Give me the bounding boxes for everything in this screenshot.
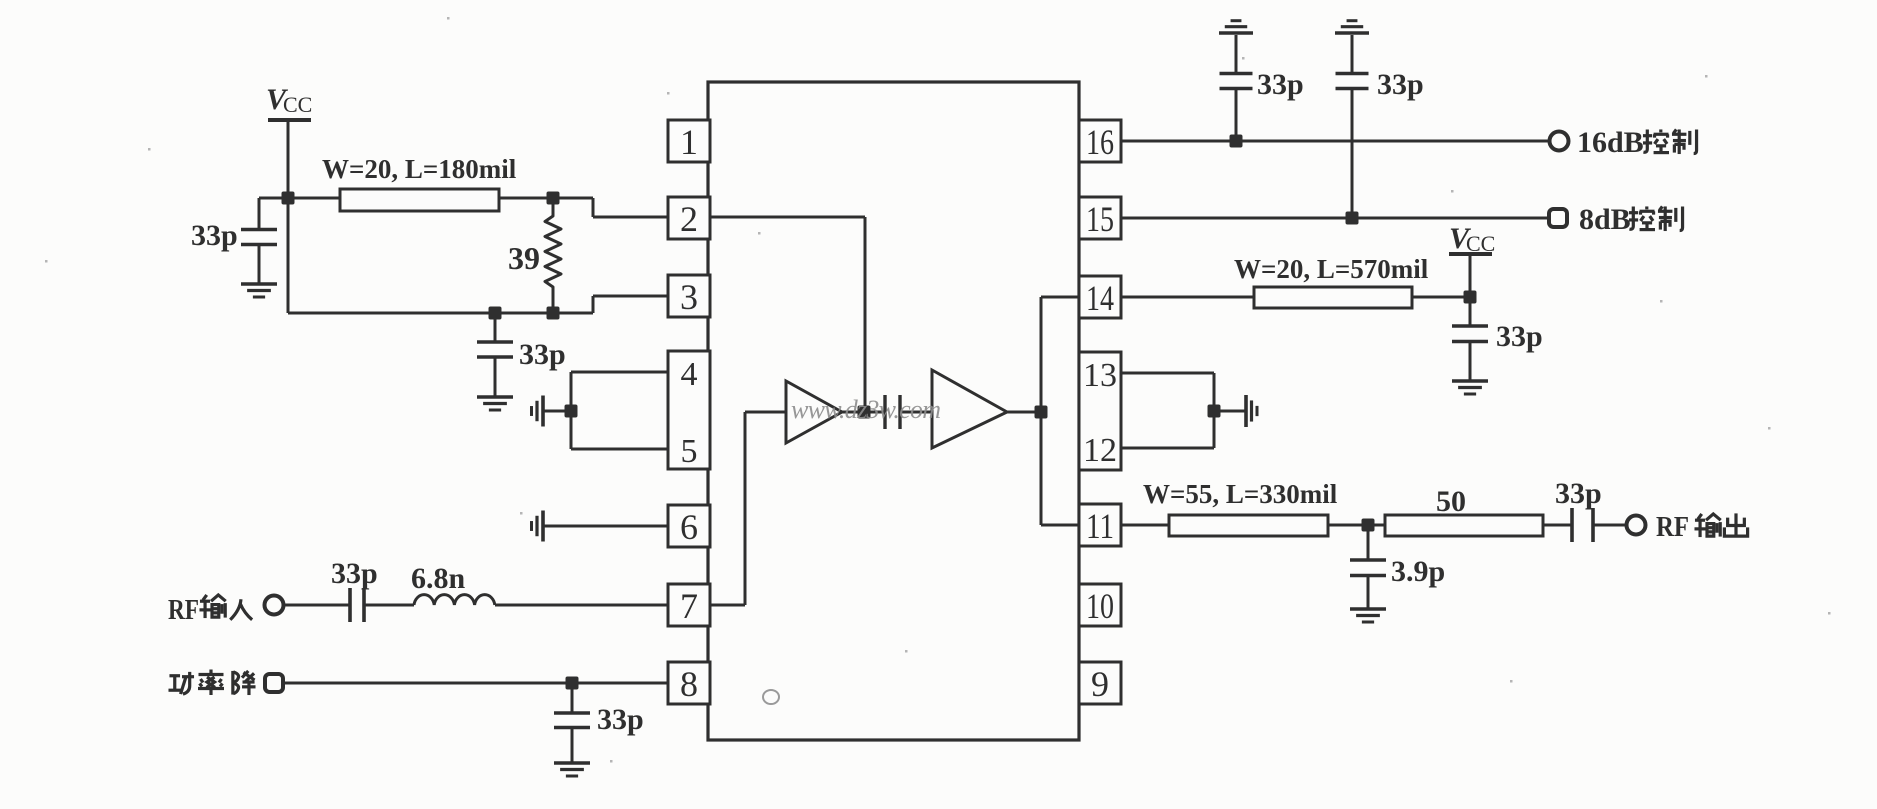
svg-text:33p: 33p (1555, 477, 1602, 510)
svg-text:CC: CC (1466, 231, 1495, 256)
svg-text:33p: 33p (597, 703, 644, 736)
svg-text:W=20, L=570mil: W=20, L=570mil (1234, 254, 1429, 284)
svg-text:RF: RF (1656, 512, 1689, 543)
svg-text:W=55, L=330mil: W=55, L=330mil (1143, 479, 1338, 509)
svg-text:RF: RF (168, 595, 199, 626)
svg-text:3.9p: 3.9p (1391, 555, 1445, 588)
svg-text:CC: CC (283, 92, 312, 117)
svg-text:W=20, L=180mil: W=20, L=180mil (322, 154, 517, 184)
svg-text:4: 4 (681, 356, 698, 393)
svg-text:16: 16 (1086, 122, 1114, 162)
svg-text:33p: 33p (1377, 68, 1424, 101)
svg-text:33p: 33p (331, 557, 378, 590)
svg-text:9: 9 (1091, 664, 1109, 704)
svg-text:6: 6 (680, 507, 698, 547)
svg-text:33p: 33p (519, 338, 566, 371)
svg-text:15: 15 (1086, 199, 1114, 239)
svg-text:8: 8 (680, 664, 698, 704)
svg-text:5: 5 (681, 433, 698, 470)
svg-text:6.8n: 6.8n (411, 562, 466, 595)
svg-text:10: 10 (1086, 586, 1114, 626)
svg-text:8dB: 8dB (1579, 203, 1631, 236)
svg-text:3: 3 (680, 277, 698, 317)
svg-text:33p: 33p (1257, 68, 1304, 101)
svg-text:16dB: 16dB (1577, 126, 1644, 159)
svg-text:1: 1 (680, 122, 698, 162)
svg-text:2: 2 (680, 199, 698, 239)
svg-text:7: 7 (680, 586, 698, 626)
svg-text:13: 13 (1083, 357, 1117, 394)
svg-text:50: 50 (1436, 485, 1466, 518)
svg-text:12: 12 (1083, 432, 1117, 469)
svg-text:39: 39 (508, 240, 540, 276)
svg-text:14: 14 (1086, 278, 1114, 318)
svg-text:33p: 33p (1496, 320, 1543, 353)
svg-text:33p: 33p (191, 219, 238, 252)
svg-text:www.dz3w.com: www.dz3w.com (791, 395, 941, 424)
svg-text:11: 11 (1086, 506, 1114, 546)
